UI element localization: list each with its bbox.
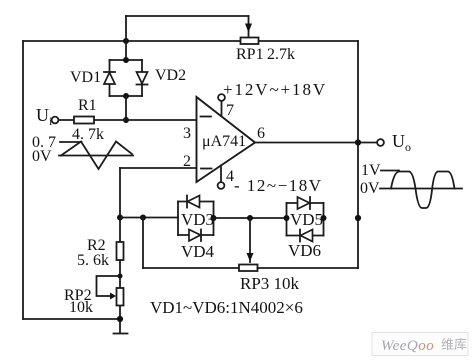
svg-text:2.7k: 2.7k	[267, 46, 295, 63]
output waveform 0V baseline	[380, 188, 462, 190]
wire: bottom-left wire y=319 to RP2 bottom node	[23, 318, 120, 320]
node: pin2/R2/VD3 junction (120,217)	[117, 215, 123, 221]
svg-text:Uo: Uo	[392, 131, 411, 154]
ground	[114, 333, 128, 335]
diode VD1 (cathode up)	[104, 72, 115, 84]
svg-text:VD4: VD4	[181, 242, 215, 261]
svg-text:4. 7k: 4. 7k	[72, 126, 104, 143]
input terminal Ui	[52, 117, 59, 124]
op-amp pin 7 stub and terminal	[218, 94, 225, 116]
diode pair VD1/VD2 box rails	[110, 60, 143, 96]
output waveform 1V level line	[381, 170, 399, 172]
wire: right frame vertical x=358	[357, 41, 359, 268]
svg-text:10k: 10k	[69, 299, 93, 316]
node: right frame junction (358,218)	[355, 215, 361, 221]
svg-text:RP1: RP1	[236, 46, 264, 63]
svg-text:VD1: VD1	[70, 69, 101, 86]
node: RP3 wiper junction (250,218)	[247, 215, 253, 221]
wire: input terminal to R1	[59, 119, 75, 121]
svg-text:R1: R1	[78, 97, 97, 114]
wire: node row y=217.5 to VD3/VD4 box	[120, 217, 178, 219]
svg-text:VD2: VD2	[155, 67, 186, 84]
svg-text:6: 6	[257, 125, 265, 142]
svg-text:0V: 0V	[360, 180, 380, 197]
op-amp pin 4 stub and terminal	[218, 166, 225, 189]
wire: feedback top rail y=16 from VD1/VD2 column to RP1 wiper	[126, 15, 249, 17]
svg-text:- 12~−18V: - 12~−18V	[234, 176, 322, 195]
wire: R1 to op-amp pin 3	[94, 119, 197, 121]
diode VD3 (points left)	[187, 196, 200, 208]
svg-text:μA741: μA741	[202, 133, 246, 150]
node: R2/RP2 wiper tap junction	[118, 274, 123, 279]
potentiometer RP3 body	[239, 265, 258, 272]
svg-text:WeeQoo: WeeQoo	[381, 338, 434, 354]
svg-text:维库: 维库	[441, 337, 467, 352]
input waveform 0.7 level line	[60, 141, 82, 143]
node: VD5/6 left junction	[284, 215, 290, 221]
input triangle waveform	[61, 142, 132, 170]
svg-text:+12V~+18V: +12V~+18V	[223, 80, 327, 99]
wire: x=126 from main rail to VD1/VD2 top	[125, 41, 127, 60]
svg-text:1V: 1V	[361, 162, 381, 179]
diode VD5 (points right)	[298, 197, 311, 209]
diode VD6 (points left)	[300, 230, 313, 242]
wire: pin 2 feedback to left column	[120, 167, 197, 169]
svg-text:4: 4	[226, 168, 234, 185]
wire: op-amp output pin 6 to output terminal	[255, 142, 377, 144]
wire: main top rail y=41 from left frame to right frame	[23, 40, 358, 42]
node: junction to RP3 left drop (142,217)	[140, 215, 146, 221]
wire: feedback column x=120 down through R2/RP2 to bottom	[119, 168, 121, 332]
potentiometer RP3 wiper arrow	[247, 218, 254, 262]
wire: RP3 row right segment	[258, 267, 359, 269]
node: VD pair bottom junction	[123, 93, 129, 99]
svg-text:3: 3	[183, 125, 191, 142]
potentiometer RP1 body	[241, 38, 259, 45]
wire: vertical x=126 from top rail down to main rail	[125, 16, 127, 41]
wire: RP3 row left segment	[143, 267, 239, 269]
wire: drop from (143,217) down to RP3 row	[142, 218, 144, 269]
watermark WeeQoo box	[372, 333, 468, 356]
resistor R1 body	[74, 117, 94, 124]
diode pair VD5/VD6 box	[287, 203, 324, 236]
input waveform 0V baseline	[59, 155, 133, 157]
svg-text:5. 6k: 5. 6k	[77, 252, 109, 269]
svg-text:Ui: Ui	[36, 105, 53, 128]
node A junction dot (126,41)	[123, 38, 129, 44]
diode VD4 (points right)	[189, 230, 201, 242]
potentiometer RP2 body	[117, 288, 124, 306]
node: VD5/6 right junction	[321, 215, 327, 221]
node: bottom junction (120,319)	[117, 316, 123, 322]
output terminal Uo	[377, 139, 384, 146]
output clipped sine waveform	[391, 172, 455, 209]
node: VD pair top junction	[123, 57, 129, 63]
potentiometer RP2 wiper arrow	[110, 293, 116, 300]
diode pair VD3/VD4 box	[178, 202, 214, 236]
svg-text:RP3 10k: RP3 10k	[240, 274, 300, 293]
wire: x=126 from VD pair bottom to input wire	[125, 96, 127, 120]
node: VD3/4 right junction	[211, 215, 217, 221]
op-amp inverting mark (top)	[201, 116, 212, 118]
diode VD2 (cathode down)	[137, 72, 148, 85]
op-amp inverting mark (bottom)	[201, 168, 212, 170]
svg-text:0V: 0V	[32, 148, 52, 165]
potentiometer RP1 wiper arrow	[245, 16, 252, 36]
node: junction with input wire	[123, 117, 129, 123]
resistor R2 body	[117, 242, 124, 260]
svg-text:7: 7	[226, 102, 234, 119]
op-amp U1 uA741 triangle	[197, 97, 256, 182]
wire: between diode boxes	[214, 217, 287, 219]
node: output junction on right frame	[355, 139, 361, 145]
wire: RP2 wiper loop	[97, 276, 121, 296]
svg-text:VD1~VD6:1N4002×6: VD1~VD6:1N4002×6	[150, 298, 303, 317]
svg-text:VD5: VD5	[290, 210, 323, 229]
wire: left frame vertical x=23	[22, 41, 24, 319]
svg-text:VD6: VD6	[288, 241, 321, 260]
svg-text:VD3: VD3	[181, 210, 214, 229]
